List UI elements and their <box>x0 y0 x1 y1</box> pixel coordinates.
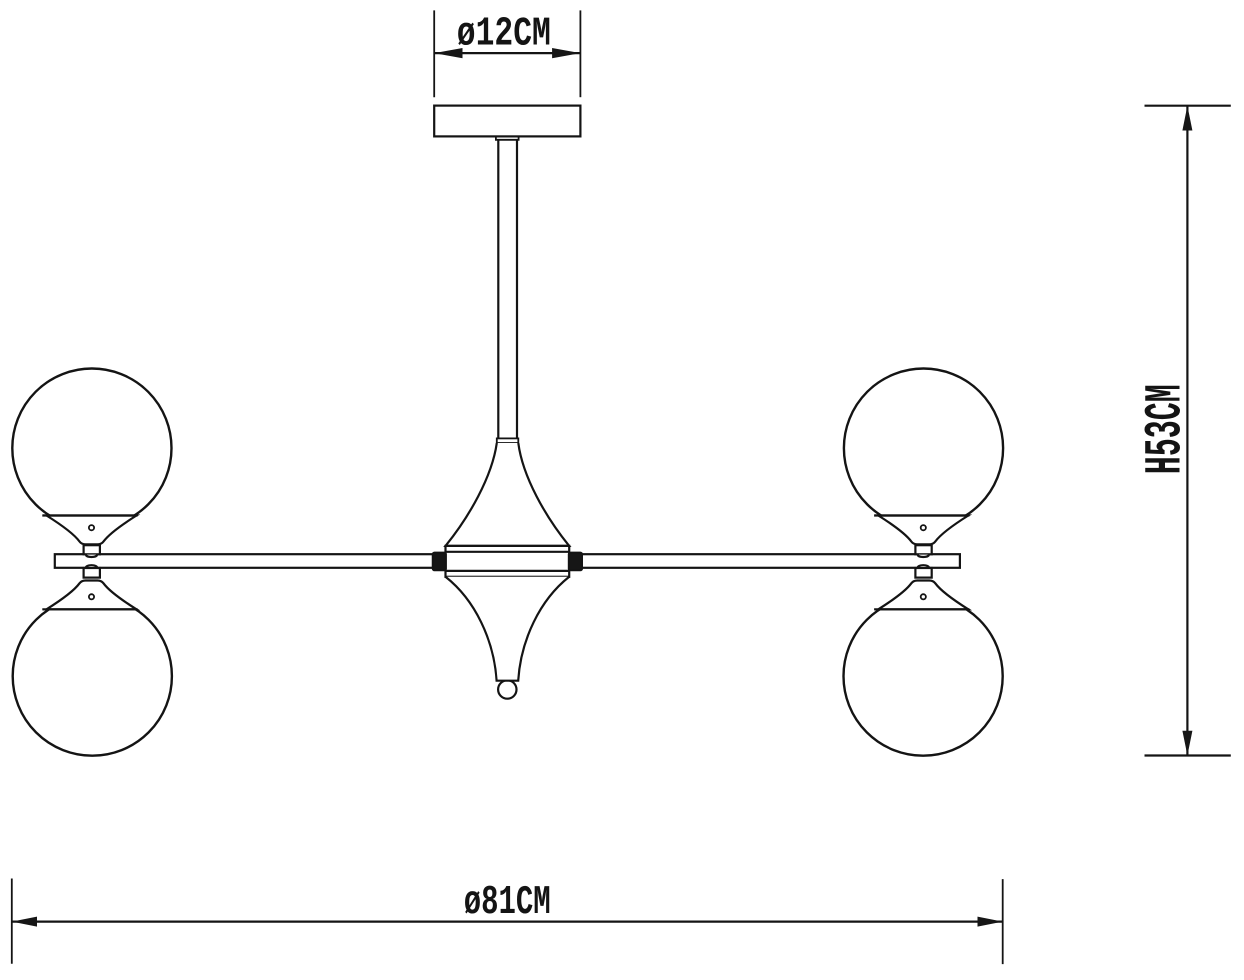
svg-text:ø12CM: ø12CM <box>457 12 551 58</box>
svg-text:H53CM: H53CM <box>1136 384 1195 474</box>
svg-text:ø81CM: ø81CM <box>464 880 551 926</box>
